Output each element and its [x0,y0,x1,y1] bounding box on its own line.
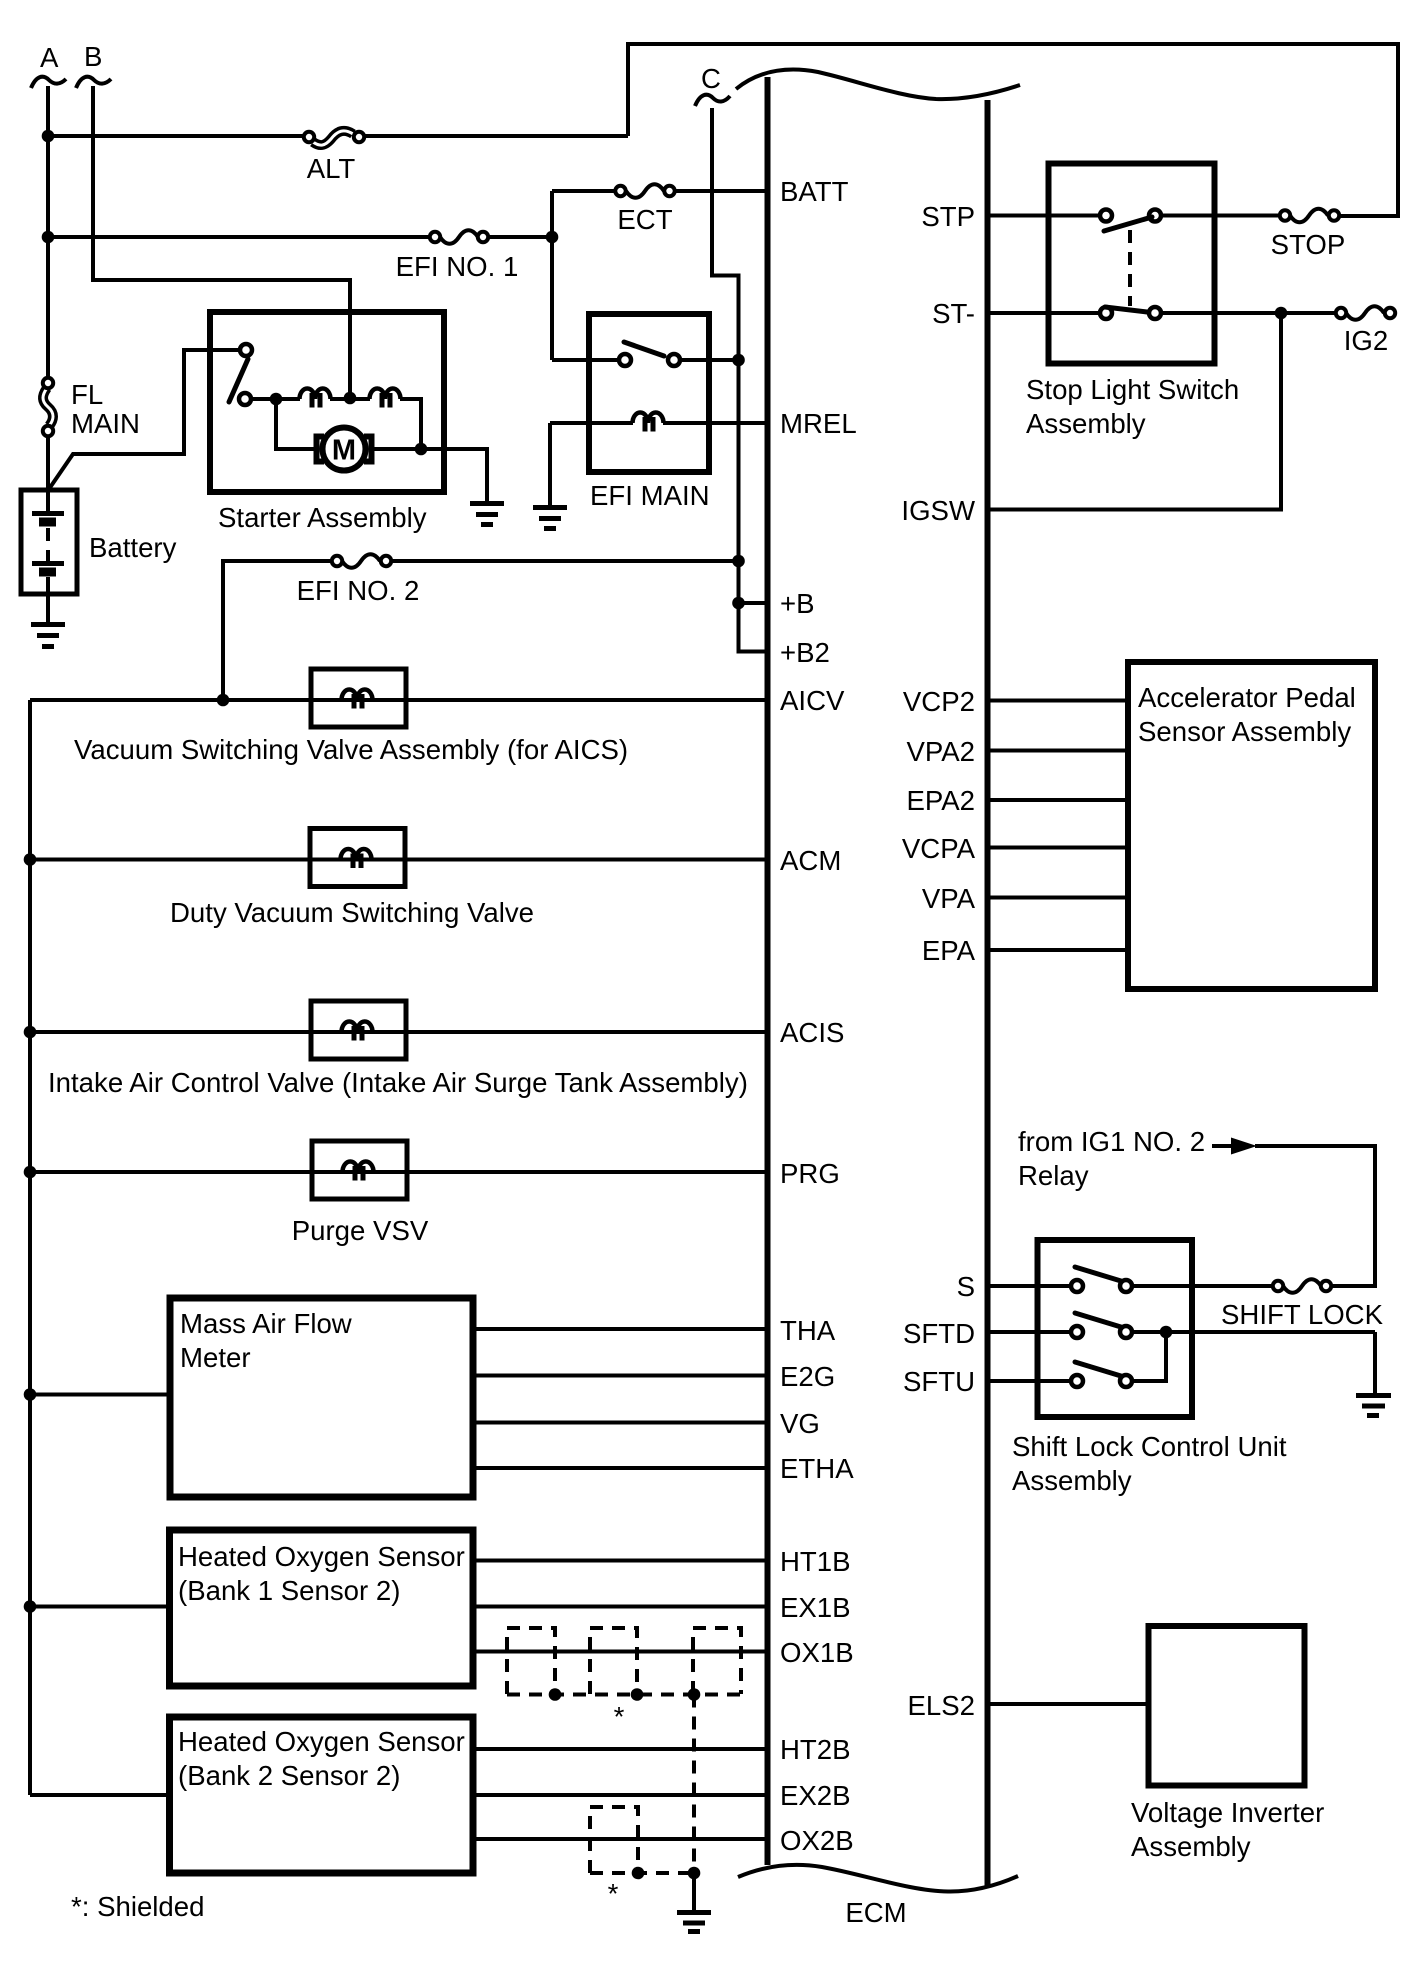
svg-text:Intake Air Control Valve (Inta: Intake Air Control Valve (Intake Air Sur… [48,1067,748,1098]
box Heated Oxygen Sensor bank2 [170,1717,474,1873]
svg-text:Accelerator Pedal: Accelerator Pedal [1138,682,1356,713]
label Heated Oxygen Sensor (Bank 2 Sensor 2) [178,1726,465,1791]
box Stop Light Switch Assembly [1049,164,1215,364]
wire VCPA [988,846,1129,850]
svg-text:THA: THA [780,1315,836,1346]
wire HT2B [473,1747,766,1751]
label Voltage Inverter Assembly [1131,1797,1324,1862]
node AICV-EFI2 junction [217,694,230,707]
svg-text:IGSW: IGSW [901,495,975,526]
node HOS1 feed junction [24,1600,37,1613]
wire ALT to top [628,44,1398,216]
svg-text:Duty Vacuum Switching Valve: Duty Vacuum Switching Valve [170,897,534,928]
node EFI NO.2 junction [732,555,745,568]
connector B [76,41,111,88]
shield dashed bottom run OX1B [507,1693,741,1697]
shield dashed box OX1B c [693,1628,741,1694]
fuse SHIFT LOCK [1221,1279,1384,1330]
shield dashed box OX1B a [507,1628,555,1694]
svg-text:Assembly: Assembly [1012,1465,1132,1496]
ground shift lock [1356,1396,1391,1416]
switch EFI MAIN contacts [619,342,680,366]
wire FLMAIN to battery [46,436,50,513]
wire B vertical [93,86,350,399]
svg-text:B: B [84,41,102,72]
box Mass Air Flow Meter [170,1298,473,1497]
svg-text:Battery: Battery [89,532,177,563]
switch shift lock SFTD [1071,1313,1132,1338]
wire VPA2 [988,749,1129,753]
svg-text:FL: FL [71,379,103,410]
fuse EFI NO. 1 [396,230,519,282]
wire E2G [473,1374,766,1378]
dashed mechanical link stop light [1128,230,1132,306]
wire STP line [988,214,1101,218]
svg-text:SHIFT LOCK: SHIFT LOCK [1221,1299,1384,1330]
node relay out junction [732,354,745,367]
fuse STOP [1271,209,1346,260]
svg-text:Mass Air Flow: Mass Air Flow [180,1308,352,1339]
wire between coils [330,397,370,401]
wire +B feed vertical [739,360,767,603]
switch shift lock SFTU [1071,1362,1132,1387]
svg-text:*: * [614,1701,625,1732]
wire motor to ground [371,449,487,502]
wire AICV line [30,698,766,702]
svg-text:Starter Assembly: Starter Assembly [218,502,427,533]
wire starter coil line [253,397,300,401]
wire ALT line [48,134,304,138]
box Accelerator Pedal Sensor Assembly [1128,662,1375,989]
svg-text:HT2B: HT2B [780,1734,851,1765]
node starter j2 feed [344,392,357,405]
node junction A-ALT [42,130,55,143]
svg-text:A: A [40,42,59,73]
wire ST- line [988,311,1101,315]
switch stop light upper [1100,210,1161,232]
svg-text:Relay: Relay [1018,1160,1089,1191]
ECM right boundary [985,100,991,1887]
svg-text:EPA2: EPA2 [906,785,975,816]
ECM top break wave [736,70,1020,100]
label Stop Light Switch Assembly [1026,374,1239,439]
svg-text:ST-: ST- [932,298,975,329]
relay box EFI MAIN [589,314,709,472]
svg-text:AICV: AICV [780,685,845,716]
svg-text:ALT: ALT [307,153,356,184]
wire shield to ground [692,1873,696,1910]
ECM bottom break wave [738,1865,1018,1892]
node shield dot 1 [549,1688,562,1701]
ground shield [677,1913,711,1932]
label Mass Air Flow Meter [180,1308,352,1373]
VSV box (AICS) [311,669,406,727]
fusible link FL MAIN [43,378,140,439]
svg-text:Meter: Meter [180,1342,251,1373]
wire IGSW line [988,313,1282,510]
svg-text:EFI NO. 1: EFI NO. 1 [396,251,519,282]
coil purge VSV [343,1162,374,1181]
label Shift Lock Control Unit Assembly [1012,1431,1287,1496]
svg-text:C: C [701,63,721,94]
node junction EFI1-vertical [546,231,559,244]
svg-text:STP: STP [921,201,975,232]
svg-text:VCPA: VCPA [902,833,976,864]
label Heated Oxygen Sensor (Bank 1 Sensor 2) [178,1541,465,1606]
svg-text:ELS2: ELS2 [907,1690,975,1721]
wire MREL line [663,421,766,425]
wire IG1 feed to shift lock fuse [1255,1146,1375,1286]
svg-text:+B2: +B2 [780,637,830,668]
svg-text:EX2B: EX2B [780,1780,851,1811]
switch stop light lower [1100,307,1161,319]
wire C vertical [712,108,739,360]
svg-text:Sensor Assembly: Sensor Assembly [1138,716,1351,747]
svg-text:(Bank 1 Sensor 2): (Bank 1 Sensor 2) [178,1575,400,1606]
connector A [31,42,66,88]
node starter j1 [270,393,283,406]
wire EFI NO.1 line [48,235,430,239]
node starter j3 [415,443,428,456]
wire S line [988,1284,1072,1288]
wire j1 down to motor [276,399,317,449]
wire SFTU line [988,1379,1072,1383]
wire EX2B [473,1793,766,1797]
node PRG junction [24,1166,37,1179]
svg-text:OX1B: OX1B [780,1637,854,1668]
svg-text:from IG1 NO. 2: from IG1 NO. 2 [1018,1126,1205,1157]
svg-text:Shift Lock Control Unit: Shift Lock Control Unit [1012,1431,1287,1462]
svg-text:S: S [957,1271,975,1302]
svg-text:Heated Oxygen Sensor: Heated Oxygen Sensor [178,1726,465,1757]
wire HOS2 feed [30,1793,170,1797]
svg-text:Heated Oxygen Sensor: Heated Oxygen Sensor [178,1541,465,1572]
wire SFTU to SFTD junction [1132,1332,1166,1381]
svg-text:ECT: ECT [617,204,672,235]
wire ACIS line [30,1030,766,1034]
node junction A-EFI1 [42,231,55,244]
shield dashed vertical to OX2B [692,1695,696,1874]
wire relay switch out [680,358,739,362]
fuse IG2 [1336,306,1395,356]
svg-text:MREL: MREL [780,408,857,439]
svg-text:VPA: VPA [922,883,976,914]
wire coil2 to motor right [400,399,421,449]
wire MAF feed [30,1393,170,1397]
svg-text:ACIS: ACIS [780,1017,844,1048]
switch starter contacts [229,344,252,405]
connector C [695,63,730,106]
coil intake air control valve [342,1022,373,1041]
coil duty VSV [341,849,372,868]
VSV box purge [312,1141,407,1199]
wire from IG1 relay arrow line [1212,1144,1234,1148]
node shield dot 5 [688,1867,701,1880]
box Voltage Inverter Assembly [1149,1626,1305,1786]
svg-text:Assembly: Assembly [1026,408,1146,439]
svg-text:SFTU: SFTU [903,1366,975,1397]
svg-text:MAIN: MAIN [71,408,140,439]
wire ACM line [30,858,766,862]
wire OX1B [473,1650,766,1654]
wire VG [473,1421,766,1425]
wire ETHA [473,1466,766,1470]
fusible link ALT [304,131,364,184]
wire SFTD line [988,1330,1072,1334]
svg-text:PRG: PRG [780,1158,840,1189]
node shield dot 2 [631,1688,644,1701]
wire HOS1 feed [30,1605,170,1609]
svg-text:VPA2: VPA2 [906,736,975,767]
VSV box duty [310,829,405,887]
svg-text:Assembly: Assembly [1131,1831,1251,1862]
ground battery [31,625,65,647]
ECM left boundary [765,77,771,1865]
wire battery to starter switch [49,350,240,489]
svg-text:ECM: ECM [845,1897,906,1928]
VSV box intake air control [311,1001,406,1059]
node ST- IG2 junction [1275,307,1288,320]
svg-text:+B: +B [780,588,815,619]
svg-text:EFI MAIN: EFI MAIN [590,480,710,511]
shield dashed box OX1B b [590,1628,637,1694]
ground starter [470,504,504,525]
wire vertical x552 [550,191,554,360]
box Heated Oxygen Sensor bank1 [170,1530,474,1686]
svg-text:*: Shielded: *: Shielded [71,1891,204,1922]
wire EFI NO.2 line [223,561,332,700]
wire ELS2 line [988,1702,1149,1706]
wire A vertical [46,86,50,378]
motor M starter [317,428,372,471]
wire MREL to ground [548,423,552,506]
wire x552 to relay switch [552,358,619,362]
battery Battery [21,490,177,622]
svg-text:*: * [608,1878,619,1909]
ground EFI MAIN [533,508,567,529]
box Shift Lock Control Unit Assembly [1038,1240,1193,1417]
wire VCP2 [988,699,1129,703]
svg-text:EPA: EPA [922,935,976,966]
node +B junction [732,597,745,610]
wire left rail [28,700,32,1795]
svg-text:STOP: STOP [1271,229,1346,260]
wire EPA2 [988,798,1129,802]
svg-text:(Bank 2 Sensor 2): (Bank 2 Sensor 2) [178,1760,400,1791]
svg-text:EX1B: EX1B [780,1592,851,1623]
label Accelerator Pedal Sensor Assembly [1138,682,1356,747]
svg-text:OX2B: OX2B [780,1825,854,1856]
node ACM junction [24,853,37,866]
svg-text:Voltage Inverter: Voltage Inverter [1131,1797,1324,1828]
svg-text:HT1B: HT1B [780,1546,851,1577]
node shield dot 3 [688,1688,701,1701]
starter relay box [210,312,444,492]
shield dashed bottom run OX2B [590,1871,694,1875]
wire ECT line [552,189,616,193]
svg-text:ACM: ACM [780,845,841,876]
svg-text:EFI NO. 2: EFI NO. 2 [297,575,420,606]
fuse ECT [615,184,674,235]
label from IG1 NO. 2 Relay [1018,1126,1205,1191]
coil starter L1 [300,389,331,408]
fuse EFI NO. 2 [297,554,420,606]
wire EX1B [473,1605,766,1609]
svg-text:Purge VSV: Purge VSV [292,1215,429,1246]
wire PRG line [30,1170,766,1174]
switch shift lock S [1071,1267,1132,1292]
svg-text:Vacuum Switching Valve Assembl: Vacuum Switching Valve Assembly (for AIC… [74,734,628,765]
svg-text:VCP2: VCP2 [903,686,975,717]
coil EFI MAIN relay [633,413,664,432]
svg-text:SFTD: SFTD [903,1318,975,1349]
wire THA [473,1327,766,1331]
svg-text:E2G: E2G [780,1361,835,1392]
node MAF feed junction [24,1388,37,1401]
svg-text:M: M [332,435,356,467]
wire HT1B [473,1559,766,1563]
wire SFTD to ground [1373,1332,1377,1393]
coil starter L2 [370,389,401,408]
coil VSV AICS [342,690,373,709]
svg-text:Stop Light Switch: Stop Light Switch [1026,374,1239,405]
node shield dot 4 [632,1867,645,1880]
wire +B2 feed [739,603,767,652]
wire VPA [988,896,1129,900]
node ACIS junction [24,1026,37,1039]
svg-text:IG2: IG2 [1344,325,1388,356]
svg-text:VG: VG [780,1408,820,1439]
svg-text:BATT: BATT [780,176,849,207]
wire OX2B [473,1837,766,1841]
shield dashed box OX2B [590,1807,638,1873]
wire EPA [988,948,1129,952]
arrow head IG1 feed [1231,1138,1257,1155]
svg-text:ETHA: ETHA [780,1453,854,1484]
node SFTD junction [1160,1326,1173,1339]
